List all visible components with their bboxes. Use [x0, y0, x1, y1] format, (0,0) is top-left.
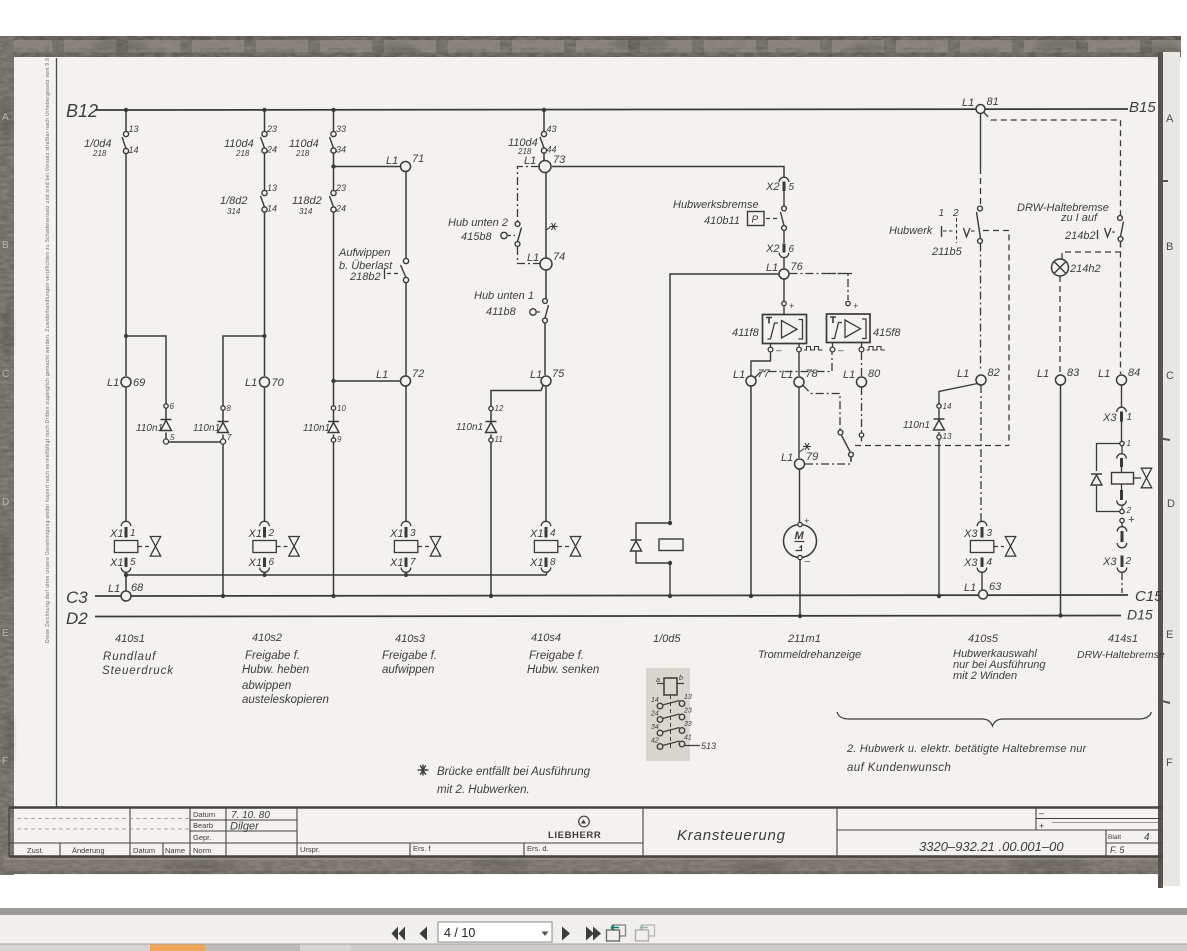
- amplifier 411f8: [732, 301, 823, 357]
- svg-text:Datum: Datum: [133, 846, 155, 855]
- svg-text:X1: X1: [109, 557, 123, 569]
- svg-text:Aufwippen: Aufwippen: [338, 247, 390, 259]
- svg-text:X3: X3: [963, 557, 978, 569]
- junction dots valve return bus: [263, 573, 409, 577]
- svg-text:L1: L1: [781, 452, 793, 464]
- node L1 82: [976, 375, 986, 385]
- wire: branch 4 (110d4 43/44 to L1 73): [544, 110, 546, 522]
- bus C3/C15: [95, 595, 1128, 596]
- wire dashed DRW to L1 84: [1120, 242, 1122, 375]
- svg-text:214b2: 214b2: [1064, 230, 1096, 242]
- svg-text:410s4: 410s4: [531, 632, 561, 644]
- svg-text:B: B: [1166, 241, 1173, 253]
- svg-text:218: 218: [295, 149, 310, 158]
- svg-text:23: 23: [266, 124, 277, 134]
- svg-text:23: 23: [335, 183, 346, 193]
- connector X2/6: [765, 243, 795, 258]
- svg-text:Änderung: Änderung: [72, 846, 105, 855]
- svg-text:a: a: [656, 677, 660, 684]
- svg-text:L1: L1: [781, 369, 793, 381]
- toolbar background: [0, 915, 1187, 944]
- wire L1 81 down (solid then dashed): [980, 114, 982, 169]
- svg-text:2: 2: [1125, 556, 1132, 567]
- svg-text:Ers. d.: Ers. d.: [527, 844, 549, 853]
- svg-text:1: 1: [1127, 412, 1133, 423]
- svg-text:77: 77: [758, 368, 771, 380]
- left scan strip: [0, 36, 14, 875]
- svg-text:M: M: [795, 530, 805, 542]
- bridge asterisk (L1 78 line): [800, 443, 812, 452]
- svg-text:214h2: 214h2: [1069, 263, 1101, 275]
- connector X3/2: [1102, 556, 1132, 594]
- svg-text:Rundlauf: Rundlauf: [103, 651, 157, 663]
- svg-text:218: 218: [92, 149, 107, 158]
- svg-text:X3: X3: [963, 528, 978, 540]
- note Bruecke entfaellt: [418, 765, 591, 797]
- node L1 84: [1117, 375, 1127, 385]
- svg-text:Freigabe f.: Freigabe f.: [529, 650, 584, 662]
- svg-text:218: 218: [517, 147, 532, 156]
- svg-text:Name: Name: [165, 846, 185, 855]
- contact under L1 80: [859, 433, 863, 442]
- svg-text:L1: L1: [108, 583, 120, 595]
- viewer divider band: [0, 908, 1187, 915]
- junction dots top bus: [124, 108, 546, 577]
- svg-text:4: 4: [987, 557, 993, 568]
- svg-text:A: A: [1166, 113, 1174, 125]
- svg-text:C15: C15: [1135, 588, 1163, 605]
- connector X3/1: [1102, 385, 1132, 424]
- right zone column: [1163, 52, 1180, 886]
- svg-text:410s5: 410s5: [968, 633, 999, 645]
- svg-text:+: +: [1128, 514, 1135, 526]
- svg-text:1/8d2: 1/8d2: [220, 195, 248, 207]
- svg-text:110n1: 110n1: [456, 422, 483, 433]
- valve X1/1: [109, 521, 161, 572]
- svg-text:X2: X2: [765, 181, 779, 193]
- relay 1/0d5 with diode: [631, 521, 684, 596]
- svg-text:–: –: [775, 346, 782, 357]
- svg-text:415b8: 415b8: [461, 231, 492, 243]
- top scan band: [0, 36, 1181, 57]
- svg-text:410s3: 410s3: [395, 633, 426, 645]
- svg-text:13: 13: [684, 694, 692, 701]
- svg-text:411b8: 411b8: [486, 306, 517, 318]
- zone letters left strip: [2, 112, 9, 767]
- svg-text:43: 43: [547, 124, 557, 134]
- bus D2/D15: [95, 616, 1121, 617]
- svg-text:2. Hubwerk u. elektr. betätigt: 2. Hubwerk u. elektr. betätigte Haltebre…: [846, 743, 1088, 755]
- svg-text:X3: X3: [1102, 556, 1117, 568]
- contact 110d4 43/44: [540, 131, 547, 153]
- svg-text:110n1: 110n1: [136, 423, 163, 434]
- svg-text:L1: L1: [530, 369, 542, 381]
- node L1 68: [121, 591, 131, 601]
- svg-text:Zust.: Zust.: [27, 846, 44, 855]
- svg-text:73: 73: [553, 154, 566, 166]
- wire: valve return bus y=575: [126, 572, 547, 592]
- title block: [9, 808, 1163, 857]
- svg-text:Steuerdruck: Steuerdruck: [102, 665, 174, 677]
- valve X1/3: [389, 521, 441, 572]
- svg-text:X1: X1: [248, 528, 262, 540]
- svg-text:24: 24: [650, 711, 659, 718]
- svg-text:33: 33: [336, 124, 346, 134]
- svg-text:mit 2. Hubwerken.: mit 2. Hubwerken.: [437, 784, 530, 796]
- wire: L1 71 branch and Aufwippen line to L1 72 and X1/3: [334, 167, 407, 522]
- svg-text:D: D: [1167, 498, 1175, 510]
- wire L1 77 to C3: [750, 387, 752, 597]
- svg-text:42: 42: [651, 738, 659, 745]
- svg-text:10: 10: [337, 404, 346, 413]
- svg-text:211m1: 211m1: [787, 633, 821, 645]
- wire: L1 75 jog to diode 12/11: [491, 386, 543, 597]
- diode 110n1 pins 6/5: [136, 402, 175, 444]
- node L1 74: [540, 258, 552, 270]
- svg-text:Kransteuerung: Kransteuerung: [677, 827, 786, 844]
- switch DRW-Haltebremse 214b2: [1017, 202, 1124, 242]
- wire dash-dot L1 78 to selector switch: [803, 386, 840, 431]
- svg-text:Diese Zeichnung darf ohne unse: Diese Zeichnung darf ohne unsere Genehmi…: [45, 44, 51, 643]
- svg-text:5: 5: [170, 433, 175, 442]
- svg-text:L1: L1: [957, 368, 969, 380]
- svg-text:L1: L1: [964, 582, 976, 594]
- svg-text:110n1: 110n1: [903, 420, 930, 431]
- wire: branch 3 (110d4 33/34, 118d2, diode 10/9): [333, 110, 335, 596]
- diode 110n1 pins 12/11: [456, 404, 504, 444]
- svg-text:DRW-Haltebremse: DRW-Haltebremse: [1077, 649, 1165, 661]
- svg-text:aufwippen: aufwippen: [382, 664, 434, 676]
- svg-text:B: B: [2, 240, 9, 251]
- svg-text:69: 69: [133, 377, 145, 389]
- node L1 79: [795, 459, 805, 469]
- contact 1/0d4 13/14: [122, 131, 129, 153]
- diode 110n1 pins 14/13: [903, 402, 952, 441]
- right page edge dark line: [1158, 52, 1163, 888]
- svg-text:X1: X1: [529, 528, 543, 540]
- svg-text:7: 7: [410, 557, 416, 568]
- node L1 78: [794, 377, 804, 387]
- lamp 214h2: [1052, 259, 1101, 276]
- svg-text:+: +: [789, 301, 794, 311]
- svg-text:Gepr.: Gepr.: [193, 833, 211, 842]
- diode 110n1 pins 10/9: [303, 404, 346, 444]
- node L1 70: [260, 377, 270, 387]
- svg-text:1/0d5: 1/0d5: [653, 633, 681, 645]
- wire: branch 1 (1/0d4 to L1 69 to X1/1): [125, 110, 127, 522]
- svg-text:X1: X1: [109, 528, 123, 540]
- svg-text:–: –: [1039, 808, 1044, 818]
- toolbar prev button: [420, 927, 428, 941]
- svg-text:F. 5: F. 5: [1110, 845, 1125, 855]
- svg-text:Hubwerksbremse: Hubwerksbremse: [673, 199, 759, 211]
- svg-text:+: +: [853, 301, 858, 311]
- svg-text:X1: X1: [529, 557, 543, 569]
- svg-text:X2: X2: [765, 243, 779, 255]
- svg-text:75: 75: [552, 368, 565, 380]
- svg-text:A: A: [2, 112, 9, 123]
- zone ticks right edge: [1158, 181, 1170, 703]
- svg-text:Norm: Norm: [193, 846, 211, 855]
- svg-text:72: 72: [412, 368, 424, 380]
- svg-text:82: 82: [988, 367, 1000, 379]
- svg-text:33: 33: [684, 721, 692, 728]
- svg-text:41: 41: [684, 735, 692, 742]
- svg-text:79: 79: [806, 451, 818, 463]
- svg-text:9: 9: [337, 435, 342, 444]
- svg-text:44: 44: [547, 145, 557, 155]
- svg-text:71: 71: [412, 153, 424, 165]
- svg-text:411f8: 411f8: [732, 327, 760, 339]
- svg-text:Trommeldrehanzeige: Trommeldrehanzeige: [758, 649, 861, 661]
- svg-text:70: 70: [272, 377, 285, 389]
- wire X2/6 to L1 76: [783, 258, 785, 269]
- svg-text:L1: L1: [766, 262, 778, 274]
- wire: branch 2 (110d4/1/8d2 to L1 70 to X1/2): [223, 110, 265, 522]
- toolbar bottom strip: [0, 944, 1187, 951]
- svg-text:7. 10. 80: 7. 10. 80: [231, 810, 270, 821]
- node L1 77: [746, 376, 756, 386]
- title block small labels: [27, 810, 549, 855]
- svg-text:2: 2: [952, 208, 959, 219]
- Liebherr logo: [548, 816, 601, 841]
- svg-text:E: E: [2, 628, 9, 639]
- svg-text:110n1: 110n1: [193, 423, 220, 434]
- svg-text:24: 24: [266, 145, 277, 155]
- wire dash-dot L1 82 to valve X3/3: [980, 385, 982, 521]
- toolbar window icon 2 (disabled): [636, 925, 655, 941]
- svg-text:11: 11: [495, 435, 503, 444]
- junction dots C3 right: [937, 594, 941, 598]
- wire X3/4 to L1 63: [981, 572, 983, 591]
- svg-text:L1: L1: [1037, 368, 1049, 380]
- svg-text:513: 513: [701, 741, 716, 751]
- svg-text:3320–932.21 .00.001–00: 3320–932.21 .00.001–00: [919, 839, 1064, 854]
- bridge asterisk (L1 73 branch): [546, 223, 558, 230]
- svg-text:mit 2 Winden: mit 2 Winden: [953, 670, 1017, 682]
- svg-text:3: 3: [987, 528, 993, 539]
- svg-text:410b11: 410b11: [704, 215, 740, 227]
- svg-text:L1: L1: [524, 155, 536, 167]
- svg-text:80: 80: [868, 368, 881, 380]
- svg-text:L1: L1: [376, 369, 388, 381]
- svg-text:b: b: [679, 675, 683, 682]
- wire L1 82 jog to diode 14/13: [939, 384, 978, 597]
- node L1 80: [857, 377, 867, 387]
- drawing frame left border: [56, 58, 58, 807]
- wire switch to X2/6: [783, 231, 785, 244]
- svg-text:–: –: [837, 346, 844, 357]
- valve X1/2: [248, 521, 300, 572]
- svg-text:84: 84: [1128, 367, 1140, 379]
- svg-text:14: 14: [651, 697, 659, 704]
- svg-text:4: 4: [1144, 832, 1150, 843]
- svg-text:13: 13: [943, 432, 952, 441]
- wire 411f8 left pin to L1 77: [751, 352, 771, 376]
- svg-text:14: 14: [943, 402, 952, 411]
- svg-text:austeleskopieren: austeleskopieren: [242, 694, 329, 706]
- svg-text:5: 5: [789, 182, 795, 193]
- svg-text:abwippen: abwippen: [242, 680, 291, 692]
- svg-text:Dilger: Dilger: [230, 821, 260, 833]
- svg-text:76: 76: [791, 261, 804, 273]
- relay 414s1 (X3 1/2): [1091, 422, 1152, 548]
- svg-text:Freigabe f.: Freigabe f.: [382, 650, 437, 662]
- svg-text:6: 6: [170, 402, 175, 411]
- contact 118d2 23/24: [330, 190, 337, 212]
- contact 110d4 33/34: [330, 131, 337, 153]
- junction dots C3/D2 middle: [668, 594, 802, 618]
- valve X3/3: [963, 521, 1016, 572]
- svg-text:414s1: 414s1: [1108, 633, 1138, 645]
- wire 411f8 right pin to L1 78 to L1 79: [798, 352, 801, 524]
- svg-text:8: 8: [227, 404, 232, 413]
- wire dashed L1 81 to DRW column: [984, 113, 1121, 216]
- svg-text:118d2: 118d2: [292, 195, 322, 207]
- svg-text:24: 24: [335, 204, 346, 214]
- svg-text:zu I auf: zu I auf: [1060, 212, 1098, 224]
- contact 110d4 23/24: [261, 131, 268, 153]
- valve X1/4: [529, 521, 581, 572]
- motor 211m1: [784, 516, 817, 567]
- toolbar last-page button: [586, 927, 601, 941]
- svg-text:1: 1: [1127, 439, 1131, 448]
- wire dashed DRW switch to lamp: [1062, 242, 1121, 259]
- svg-text:L1: L1: [1098, 368, 1110, 380]
- switch Hub unten 2 415b8: [448, 217, 522, 246]
- svg-text:C3: C3: [66, 588, 88, 607]
- svg-text:34: 34: [336, 145, 346, 155]
- svg-text:–: –: [804, 556, 811, 567]
- svg-text:L1: L1: [843, 369, 855, 381]
- toolbar window icon 1: [607, 925, 626, 941]
- svg-text:218: 218: [235, 149, 250, 158]
- svg-text:X1: X1: [248, 557, 262, 569]
- svg-text:B12: B12: [66, 101, 98, 121]
- wire dashed selector to X3 column: [855, 445, 1009, 447]
- wire dash-dot L1 79 to selector: [805, 458, 851, 464]
- svg-text:E: E: [1166, 629, 1173, 641]
- diode 110n1 pins 8/7: [193, 404, 232, 444]
- node L1 76: [779, 269, 789, 279]
- junction dots bus C3: [221, 594, 493, 598]
- svg-text:68: 68: [131, 582, 144, 594]
- svg-text:7: 7: [227, 433, 232, 442]
- svg-text:D15: D15: [1127, 607, 1153, 623]
- wire dash-dot 415f8 right pin to L1 80 and below: [861, 352, 863, 432]
- svg-text:6: 6: [269, 557, 275, 568]
- selector switch contacts: [838, 430, 853, 461]
- wire: diode bottoms bridge: [166, 411, 223, 597]
- svg-text:Hub unten 2: Hub unten 2: [448, 217, 508, 229]
- svg-text:Hubw. senken: Hubw. senken: [527, 664, 599, 676]
- wire: jog line1 to diode 6/5: [126, 336, 166, 440]
- bottom scan band: [4, 857, 1168, 874]
- svg-text:F: F: [2, 756, 8, 767]
- svg-text:4 / 10: 4 / 10: [444, 926, 475, 940]
- wire dash-dot L1 76 right to 415f8 plus: [790, 274, 849, 301]
- svg-text:X1: X1: [389, 528, 403, 540]
- svg-text:410s2: 410s2: [252, 632, 282, 644]
- svg-text:314: 314: [299, 207, 313, 216]
- svg-text:Bearb: Bearb: [193, 821, 213, 830]
- switch Hubwerk 211b5: [889, 206, 982, 258]
- svg-text:L1: L1: [107, 377, 119, 389]
- wire L1 76 down to 411f8 plus: [783, 279, 785, 314]
- zone letters right edge: [1166, 113, 1175, 769]
- svg-text:6: 6: [789, 244, 795, 255]
- svg-text:D2: D2: [66, 609, 88, 628]
- svg-text:auf Kundenwunsch: auf Kundenwunsch: [847, 762, 951, 774]
- relay pin block 1/0d5 (513): [646, 668, 716, 761]
- svg-text:83: 83: [1067, 367, 1080, 379]
- svg-text:74: 74: [553, 251, 565, 263]
- svg-text:F: F: [1166, 757, 1173, 769]
- svg-text:218b2: 218b2: [349, 271, 381, 283]
- node L1 75: [541, 376, 551, 386]
- wire dash-dot L1 73 to Hub unten 2: [518, 167, 541, 264]
- node L1 81: [976, 105, 985, 114]
- wire L1 83 to D15: [1060, 385, 1062, 616]
- svg-text:8: 8: [550, 557, 556, 568]
- node L1 69: [121, 377, 131, 387]
- wire: L1 73 to X2/5 horizontal: [552, 167, 784, 177]
- svg-text:X1: X1: [389, 557, 403, 569]
- svg-text:1: 1: [130, 528, 136, 539]
- svg-text:C: C: [1166, 370, 1174, 382]
- wire dash-dot 211b5 down to L1 82: [980, 244, 982, 372]
- svg-text:14: 14: [129, 145, 139, 155]
- switch Hubwerksbremse 410b11: [673, 199, 786, 230]
- svg-text:+: +: [1039, 821, 1044, 831]
- svg-text:12: 12: [495, 404, 504, 413]
- wire X2/5 to switch: [783, 191, 785, 206]
- svg-text:Freigabe f.: Freigabe f.: [245, 650, 300, 662]
- toolbar first-page button: [392, 927, 406, 941]
- svg-text:B15: B15: [1129, 99, 1156, 116]
- svg-text:L1: L1: [527, 252, 539, 264]
- svg-text:P: P: [752, 215, 759, 226]
- svg-text:LIEBHERR: LIEBHERR: [548, 830, 601, 841]
- label 110d4 218 (branch4): [547, 124, 557, 155]
- svg-text:23: 23: [683, 708, 692, 715]
- wire dash-dot tail right of 76: [820, 273, 852, 275]
- svg-text:410s1: 410s1: [115, 633, 145, 645]
- svg-text:63: 63: [989, 581, 1002, 593]
- svg-text:14: 14: [267, 204, 277, 214]
- node L1 63: [979, 590, 988, 599]
- svg-text:+: +: [804, 516, 809, 526]
- wire motor to D2: [799, 560, 801, 617]
- node L1 71: [401, 162, 411, 172]
- svg-text:L1: L1: [386, 155, 398, 167]
- node L1 83: [1056, 375, 1066, 385]
- svg-text:Hubw. heben: Hubw. heben: [242, 664, 309, 676]
- svg-text:L1: L1: [962, 97, 974, 109]
- svg-text:4: 4: [550, 528, 556, 539]
- bus B12/B15: [95, 109, 1128, 110]
- svg-text:Brücke entfällt bei Ausführung: Brücke entfällt bei Ausführung: [437, 766, 591, 778]
- svg-text:X3: X3: [1102, 412, 1117, 424]
- toolbar page input: [438, 922, 552, 942]
- svg-text:D: D: [2, 497, 9, 508]
- svg-text:L1: L1: [245, 377, 257, 389]
- svg-text:2: 2: [268, 528, 275, 539]
- toolbar next button: [562, 927, 570, 941]
- wire dash-dot L1 77 to 415f8 minus pin: [755, 352, 832, 378]
- svg-text:78: 78: [806, 368, 819, 380]
- svg-text:3: 3: [410, 528, 416, 539]
